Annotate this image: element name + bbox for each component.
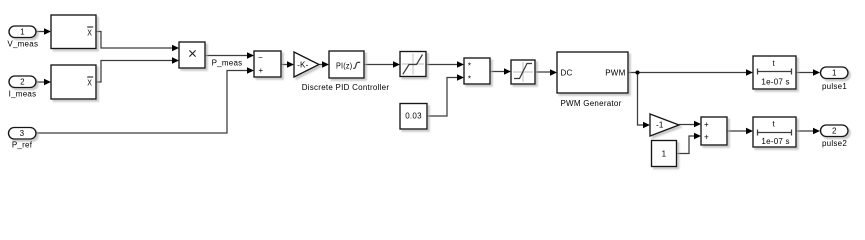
svg-text:1: 1 (20, 27, 25, 36)
svg-text:DC: DC (561, 68, 573, 77)
svg-text:−: − (258, 53, 263, 62)
svg-text:I_meas: I_meas (9, 90, 37, 99)
svg-text:0.03: 0.03 (405, 112, 422, 121)
svg-text:P_meas: P_meas (212, 59, 243, 68)
svg-text:+: + (704, 120, 709, 129)
svg-text:P_ref: P_ref (12, 141, 33, 150)
svg-text:+: + (259, 66, 264, 75)
svg-text:3: 3 (20, 129, 25, 138)
svg-text:1e-07 s: 1e-07 s (761, 77, 789, 86)
svg-text:-K-: -K- (297, 60, 309, 69)
svg-text:*: * (468, 62, 471, 71)
svg-text:pulse1: pulse1 (822, 82, 847, 91)
svg-text:pulse2: pulse2 (822, 139, 847, 148)
svg-text:PWM Generator: PWM Generator (560, 99, 621, 108)
svg-text:PWM: PWM (605, 68, 625, 77)
svg-text:+: + (704, 132, 709, 141)
svg-text:2: 2 (832, 127, 837, 136)
svg-text:PI(z): PI(z) (336, 62, 352, 71)
svg-text:*: * (468, 75, 471, 84)
svg-text:1: 1 (832, 69, 837, 78)
svg-text:X: X (87, 29, 92, 38)
svg-text:-1: -1 (656, 121, 664, 130)
svg-text:X: X (87, 79, 92, 88)
svg-text:1: 1 (662, 149, 667, 158)
svg-text:V_meas: V_meas (7, 40, 38, 49)
svg-text:Discrete PID Controller: Discrete PID Controller (302, 83, 390, 92)
svg-text:2: 2 (20, 78, 25, 87)
svg-text:1e-07 s: 1e-07 s (761, 137, 789, 146)
